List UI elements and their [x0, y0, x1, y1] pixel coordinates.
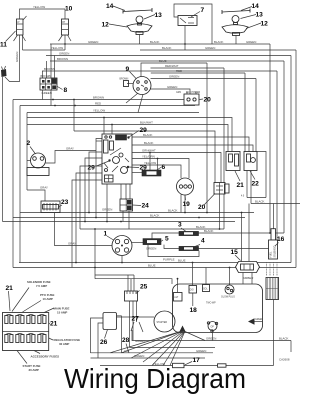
svg-text:GREEN: GREEN [134, 354, 144, 358]
relay R10 [59, 19, 72, 41]
svg-text:SOL: SOL [203, 289, 208, 291]
svg-text:22: 22 [252, 181, 260, 188]
ignition switch S9 [133, 77, 151, 95]
leader wire [58, 205, 62, 208]
connector P25 [125, 291, 138, 301]
leader wire [200, 98, 204, 101]
svg-text:Wiring Diagram: Wiring Diagram [64, 362, 246, 394]
connector J24 [120, 199, 133, 211]
wire relay11 pin2 [22, 35, 24, 50]
fuses row2 [5, 334, 46, 343]
svg-text:15: 15 [231, 249, 239, 256]
wire bus y221.5 [3, 221, 236, 223]
leader wire [191, 12, 200, 18]
connector under relays [225, 184, 230, 193]
leader wire [136, 291, 140, 294]
svg-text:RED/WHT: RED/WHT [165, 64, 179, 68]
wire module left 1 [96, 140, 102, 142]
leader wire [30, 147, 36, 155]
fuses row1 [5, 315, 46, 324]
svg-text:RED: RED [95, 102, 101, 106]
glow plug [221, 285, 235, 298]
leader wire [131, 322, 134, 331]
leader wire [34, 351, 40, 354]
wire ray 2 [131, 332, 182, 359]
wire module left 5 [76, 173, 102, 263]
wire module right 2 [132, 145, 253, 152]
wire bus y61 [50, 60, 284, 62]
leader wire [130, 72, 137, 79]
bulb L [136, 16, 143, 25]
svg-text:6: 6 [162, 164, 166, 171]
wire switch drop [184, 26, 186, 51]
wire bus y55.5 [46, 55, 291, 57]
wire bus y71 [42, 70, 277, 72]
wire left bus x2.5 [2, 77, 4, 222]
leader wire [250, 171, 255, 180]
leader wire [156, 167, 162, 171]
svg-text:BLACK: BLACK [168, 209, 178, 213]
svg-text:11: 11 [0, 42, 7, 49]
regulator U5 [143, 239, 161, 245]
wire bus y212.5 [20, 212, 254, 214]
leader wire [105, 330, 108, 339]
svg-text:CA2608: CA2608 [279, 358, 290, 362]
svg-text:30 AMP: 30 AMP [59, 342, 69, 346]
wire y190 battery top [27, 190, 45, 201]
wire meter bottom [184, 195, 186, 213]
svg-text:25: 25 [140, 284, 148, 291]
wire R4 right [199, 248, 278, 250]
wire ray 1 [121, 332, 181, 353]
wire vertical x277 [276, 71, 278, 249]
leader wire [109, 24, 127, 27]
leader wire [12, 288, 29, 312]
headlamp lens L [123, 8, 152, 14]
wire glow up [229, 268, 231, 286]
wire op drop [212, 331, 214, 341]
leader wire [107, 236, 114, 240]
fuse connector F8 [40, 78, 57, 90]
svg-text:GRN/WHT: GRN/WHT [142, 149, 156, 153]
leader wire [192, 293, 194, 306]
svg-text:14: 14 [252, 3, 260, 10]
bulb R [232, 16, 239, 25]
wire pump feed 1 [241, 213, 243, 262]
wire vertical x96 [96, 139, 102, 218]
wire flywheel bottom [121, 256, 123, 263]
horn B [1, 66, 7, 77]
svg-text:BLACK: BLACK [150, 214, 160, 218]
wire ignition acc [151, 89, 191, 94]
fuse block F21 [3, 313, 49, 351]
pto switch S20 [214, 183, 225, 195]
svg-text:9: 9 [126, 66, 130, 73]
leader wire [6, 31, 16, 42]
wire relay10 drop [64, 35, 66, 50]
svg-text:BLACK: BLACK [144, 141, 154, 145]
dimmer switch U7 [178, 16, 197, 26]
svg-text:BLACK: BLACK [143, 133, 153, 137]
svg-text:BLACK: BLACK [204, 229, 214, 233]
wire pump bottoms [242, 273, 244, 285]
svg-text:14: 14 [106, 3, 114, 10]
wire green drop [5, 35, 20, 82]
wire module left 4 [80, 166, 102, 229]
fuel solenoid V16 [269, 229, 278, 259]
headlamp housing L [127, 24, 152, 35]
wire module right 3 [132, 153, 221, 183]
leader wire [97, 161, 110, 166]
svg-text:15 AMP: 15 AMP [57, 310, 67, 314]
leader wire [126, 344, 129, 353]
wire meter drop2 [180, 195, 182, 213]
leader wire [144, 15, 155, 20]
starter [154, 311, 175, 332]
svg-text:BLK/WHT: BLK/WHT [140, 121, 153, 125]
alternator ALT [174, 293, 183, 302]
svg-text:GREEN: GREEN [42, 91, 52, 95]
wire bus y262.5 blue [19, 262, 291, 264]
svg-text:GRAY: GRAY [40, 186, 48, 190]
wire vertical x296 [295, 50, 297, 268]
svg-text:7.5 AMP: 7.5 AMP [36, 284, 47, 288]
wire bus y112.5 [27, 112, 199, 114]
wire vertical x245 [244, 73, 246, 152]
svg-text:27: 27 [132, 316, 140, 323]
leader wire [17, 351, 27, 364]
svg-text:YELLOW: YELLOW [51, 46, 63, 50]
svg-text:13: 13 [155, 12, 163, 19]
svg-text:BLACK: BLACK [255, 200, 265, 204]
svg-text:GREEN: GREEN [135, 339, 145, 343]
wire module stub up [111, 125, 113, 135]
wire vertical x27 [26, 113, 28, 191]
wire yellow jumper [20, 9, 66, 19]
svg-text:GREEN: GREEN [206, 337, 216, 341]
wire y203.5 [251, 203, 300, 205]
svg-text:21: 21 [50, 321, 58, 328]
wire ignition blue [141, 63, 207, 77]
wire R4 left [164, 245, 179, 249]
wire y358 [91, 357, 206, 359]
wire bus y233 [152, 233, 284, 239]
wire module left 3 [85, 158, 102, 222]
leader wire [129, 131, 139, 138]
svg-text:GREEN: GREEN [246, 40, 256, 44]
wire module right 4 [132, 159, 189, 179]
svg-text:TWO WP: TWO WP [206, 303, 216, 305]
leader wire [241, 7, 252, 11]
svg-text:BLUE: BLUE [148, 264, 156, 268]
leader wire [129, 166, 140, 169]
oil pressure sender [207, 322, 217, 333]
svg-text:24: 24 [142, 203, 150, 210]
ground terminal [180, 326, 186, 332]
bracket right of relays [257, 152, 266, 198]
wire ignition red/wht [151, 67, 225, 69]
svg-text:BRN GRN: BRN GRN [41, 76, 52, 78]
svg-text:18: 18 [190, 307, 198, 314]
svg-text:26: 26 [100, 339, 108, 346]
wire module top pin [103, 118, 105, 135]
relay R11 [14, 16, 27, 41]
wire vertical x284 [283, 61, 285, 233]
svg-text:2: 2 [27, 140, 31, 147]
wire ray 6 [110, 332, 181, 353]
svg-text:23: 23 [61, 199, 69, 206]
wire y365.5 [100, 365, 274, 367]
wire ignition red [151, 72, 245, 74]
wire clutch left [27, 160, 31, 162]
svg-text:BLACK: BLACK [162, 46, 172, 50]
svg-text:ACCESSORY FUSES: ACCESSORY FUSES [31, 355, 60, 359]
svg-text:12: 12 [102, 22, 110, 29]
wire diode left [132, 172, 142, 174]
wire bus y117.5 [27, 118, 232, 152]
wire lamp L drop [139, 35, 141, 45]
svg-text:12: 12 [261, 21, 269, 28]
leader wire [113, 6, 125, 11]
wire regulator drop [148, 245, 199, 257]
svg-text:BLACK: BLACK [150, 40, 160, 44]
wire vertical x270 [269, 44, 271, 233]
svg-text:GREEN: GREEN [88, 40, 98, 44]
control module U29 [102, 134, 132, 184]
svg-text:GREEN: GREEN [205, 46, 215, 50]
wire ray right [185, 332, 205, 341]
svg-text:VIO: VIO [124, 349, 130, 353]
svg-text:GREEN: GREEN [15, 52, 19, 62]
battery B23 [41, 201, 60, 213]
wire module bottom pins [120, 184, 122, 199]
wire ignition green [151, 78, 257, 80]
wire pins F8 top [42, 71, 44, 78]
svg-text:YEL/GRN: YEL/GRN [142, 155, 155, 159]
fuel pump P15 [236, 262, 260, 273]
wire ignition diag2 [138, 94, 143, 112]
leader wire [235, 255, 241, 261]
wire ray 3 [143, 332, 183, 363]
junction box 26 [103, 313, 117, 330]
svg-text:GLOW PLUG: GLOW PLUG [221, 296, 235, 298]
svg-text:5: 5 [165, 236, 169, 243]
wire ray 5 [163, 332, 185, 366]
diode D6 [142, 170, 161, 176]
engine block hatch [266, 278, 279, 300]
wire module left 6 [72, 180, 102, 268]
wire vertical x20 [19, 106, 21, 263]
wire starter left [117, 316, 155, 318]
svg-text:21: 21 [237, 182, 245, 189]
wire bus y131 [74, 131, 215, 183]
leader wire [9, 291, 11, 311]
engine harness outline [173, 284, 263, 333]
wire y275 [95, 274, 134, 276]
svg-text:GRAY: GRAY [68, 242, 76, 246]
resistor R3 [179, 231, 199, 235]
svg-text:1: 1 [104, 231, 108, 238]
svg-text:GREEN: GREEN [146, 246, 156, 250]
svg-text:GRAY: GRAY [66, 147, 74, 151]
wire module right 1 [132, 137, 249, 152]
hour meter M19 [177, 178, 194, 195]
wire y197.5 [247, 197, 266, 199]
svg-text:BROWN: BROWN [120, 79, 129, 81]
headlamp lens R [222, 9, 250, 15]
wire pins F8 bottom [42, 90, 44, 100]
wire vertical x74 [73, 100, 75, 132]
wire y340.5 green [132, 330, 291, 341]
leader wire [49, 323, 50, 324]
leader wire [235, 171, 240, 181]
wire y278.7 [95, 279, 172, 284]
wire relay bottoms [246, 171, 248, 198]
wire lamp R drop [235, 36, 237, 45]
wire sol up [205, 268, 207, 285]
leader wire [195, 245, 200, 247]
wire bus y217.5 [13, 217, 245, 219]
svg-text:BROWN: BROWN [93, 96, 104, 100]
wire bus y124.5 [27, 125, 228, 152]
svg-text:GREEN: GREEN [196, 349, 206, 353]
wire ignition diag1 [126, 94, 138, 104]
wire loop over switch [174, 4, 212, 44]
svg-text:BLACK: BLACK [279, 337, 289, 341]
diode DIO [189, 286, 197, 294]
svg-text:7: 7 [201, 7, 205, 14]
flywheel alternator G1 [112, 236, 132, 256]
wire module left 2 [89, 152, 102, 213]
wire ray 7 [170, 332, 185, 366]
svg-text:GREEN: GREEN [59, 52, 69, 56]
leader wire [23, 301, 42, 313]
resistor R4 [179, 246, 199, 250]
svg-text:BLUE: BLUE [178, 259, 186, 263]
wire vertical x95 [94, 229, 96, 279]
svg-text:GREEN: GREEN [102, 208, 112, 212]
wire 26 left [91, 318, 104, 353]
wire connector pins [127, 275, 129, 291]
leader wire [181, 228, 186, 231]
wire ignition left [127, 83, 133, 85]
wire bus y105.5 [20, 105, 195, 107]
leader wire [275, 243, 279, 247]
leader wire [42, 308, 54, 314]
relay K20 [184, 92, 199, 106]
svg-text:SOLENOID: SOLENOID [275, 245, 277, 257]
wire bus y50 right [140, 49, 296, 51]
svg-text:ALT: ALT [174, 296, 179, 299]
wire bus y44 [50, 43, 270, 45]
leader wire [246, 23, 261, 29]
wire 26 left2 [98, 323, 103, 358]
relay block K21 [226, 152, 240, 171]
svg-text:BROWN: BROWN [44, 67, 55, 71]
svg-text:20: 20 [204, 97, 212, 104]
wire module right 5 [132, 165, 181, 178]
wire vertical x256 [255, 79, 257, 152]
wire module bottom 1 [106, 184, 108, 222]
wire vertical x13 [12, 100, 14, 268]
wire y347.5 [130, 347, 216, 349]
svg-text:GREEN: GREEN [167, 85, 177, 89]
svg-text:19: 19 [183, 201, 191, 208]
svg-text:8: 8 [64, 87, 68, 94]
wire pump feed 2 [248, 204, 250, 262]
wire J24 bottoms [122, 211, 124, 222]
wire vertical x291 [290, 56, 292, 263]
wire diode pins top [149, 153, 151, 171]
relay block K22 [244, 152, 257, 171]
wire alt up [177, 279, 179, 293]
wire vertical x207 [206, 63, 208, 213]
green arrow connector [248, 318, 264, 325]
leader wire [184, 195, 187, 200]
svg-text:4: 4 [201, 238, 205, 245]
leader wire [185, 362, 192, 365]
leader wire [139, 322, 143, 332]
svg-text:20: 20 [198, 204, 206, 211]
svg-text:3: 3 [178, 222, 182, 229]
wire x291 drop [290, 341, 292, 353]
svg-text:28: 28 [122, 337, 130, 344]
solenoid SOL [203, 285, 210, 292]
wire engine drop [273, 300, 275, 366]
svg-text:GRN: GRN [176, 92, 181, 94]
wire bus y229 [80, 228, 224, 230]
svg-text:21: 21 [6, 285, 14, 292]
svg-text:YELLOW: YELLOW [33, 5, 45, 9]
svg-text:BLACK: BLACK [214, 40, 224, 44]
connector 25 drops [129, 301, 131, 348]
wire fuel solenoid feed [273, 204, 275, 229]
svg-text:GREEN: GREEN [255, 319, 264, 321]
leader wire [57, 86, 63, 90]
wire flywheel right [132, 242, 144, 244]
wire y352.8 [91, 352, 214, 354]
svg-text:FUEL: FUEL [271, 251, 273, 258]
leader wire [133, 204, 142, 207]
svg-text:BLUE: BLUE [159, 59, 167, 63]
svg-text:PURPLE: PURPLE [163, 257, 175, 261]
leader wire [49, 338, 53, 340]
wire bus y99.5 [13, 99, 184, 101]
text columns engine [267, 262, 278, 276]
inline fuse 17a [173, 363, 185, 367]
wire gray branch [46, 151, 97, 164]
svg-text:OP: OP [211, 327, 215, 329]
svg-text:16: 16 [277, 236, 285, 243]
svg-text:GREEN: GREEN [169, 75, 179, 79]
wire yellow link y50 [23, 49, 66, 51]
svg-text:YELLOW: YELLOW [93, 109, 105, 113]
svg-text:30 AMP: 30 AMP [29, 368, 39, 372]
wire battery to flywheel [55, 213, 113, 246]
svg-text:RED: RED [176, 69, 182, 73]
pto clutch M2 [27, 153, 49, 176]
svg-text:10: 10 [65, 6, 73, 13]
svg-text:13: 13 [256, 12, 264, 19]
leader wire [204, 194, 216, 206]
headlamp housing R [222, 25, 248, 36]
wire 26 right top [117, 316, 122, 353]
wire vertical x224 [223, 68, 225, 229]
wire bus y267.5 [13, 267, 296, 269]
svg-text:ACC POWER: ACC POWER [186, 91, 201, 94]
svg-text:10 AMP: 10 AMP [43, 297, 53, 301]
svg-text:DIO: DIO [190, 290, 194, 292]
